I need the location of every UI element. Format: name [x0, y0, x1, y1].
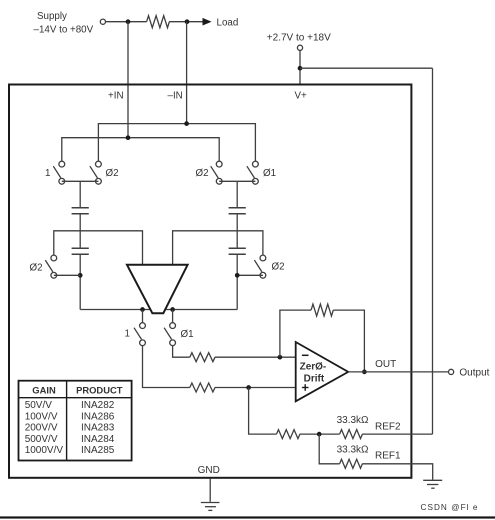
switch S5 phase 2 left [45, 255, 56, 278]
svg-text:+IN: +IN [108, 91, 124, 102]
wire upper input bus [98, 124, 255, 162]
ground REF1 [423, 480, 442, 488]
svg-text:Ø2: Ø2 [30, 262, 43, 273]
wire +IN vertical [127, 22, 129, 138]
node right column S6 junction [235, 273, 240, 278]
wire bus to S7 [142, 310, 144, 323]
node bottom bus left junction [140, 307, 145, 312]
svg-text:Ø2: Ø2 [196, 168, 209, 179]
wire S7 to R2 [143, 346, 190, 388]
node -IN on upper bus [184, 121, 189, 126]
resistor R5 33.3k REF2 [340, 430, 363, 439]
svg-text:V+: V+ [295, 91, 308, 102]
svg-text:Output: Output [459, 367, 489, 378]
wire supply terminal to shunt [106, 21, 147, 23]
svg-text:1: 1 [45, 168, 50, 179]
table row 1 [25, 400, 115, 411]
node ref junction [317, 432, 322, 437]
svg-text:–IN: –IN [168, 91, 183, 102]
table row 5 [25, 445, 115, 456]
wire lower input bus [62, 138, 219, 162]
node feedback minus junction [278, 355, 283, 360]
svg-text:CSDN @Fl e: CSDN @Fl e [421, 503, 479, 512]
svg-text:Ø2: Ø2 [106, 168, 119, 179]
wire R4 to ref node [300, 433, 340, 435]
ground GND [201, 503, 220, 511]
IC boundary box [9, 85, 411, 478]
node +IN top-rail junction [126, 19, 131, 24]
switch S3 phase 2 [211, 161, 222, 184]
svg-text:INA282: INA282 [81, 400, 115, 411]
node V+ junction [298, 66, 303, 71]
wire left feedback tap to A1 minus input [54, 231, 143, 265]
wire plus node down to R4 [249, 388, 277, 435]
switch S7 phase 1 [134, 323, 145, 346]
wire feedback up and over [280, 310, 311, 357]
svg-text:ZerØ-: ZerØ- [300, 362, 327, 373]
switch S6 phase 2 right [254, 255, 265, 278]
wire GND stub [209, 479, 211, 502]
table row 4 [25, 434, 115, 445]
svg-text:REF2: REF2 [375, 421, 401, 432]
svg-text:+2.7V to +18V: +2.7V to +18V [267, 32, 331, 43]
bottom rule [0, 516, 495, 518]
svg-text:200V/V: 200V/V [25, 423, 58, 434]
supply terminal [100, 19, 105, 24]
op-amp U1 zero-drift [296, 342, 349, 401]
capacitor C3 right [229, 208, 246, 214]
svg-text:Ø1: Ø1 [263, 168, 276, 179]
svg-text:Ø1: Ø1 [181, 329, 194, 340]
node output junction [362, 370, 367, 375]
svg-text:INA286: INA286 [81, 411, 115, 422]
svg-text:Supply: Supply [37, 11, 67, 22]
svg-text:33.3kΩ: 33.3kΩ [337, 415, 369, 426]
gain table [19, 381, 132, 461]
wire V+ junction to right rail [300, 67, 433, 69]
svg-text:Ø2: Ø2 [272, 261, 285, 272]
wire feedback to output node [333, 310, 364, 372]
svg-text:1000V/V: 1000V/V [25, 445, 64, 456]
U1 minus sign [302, 354, 309, 356]
svg-text:GND: GND [198, 465, 220, 476]
wire output [348, 371, 448, 373]
resistor R4 [277, 430, 300, 439]
wire C3 to C4 right column [236, 214, 238, 248]
svg-text:INA284: INA284 [81, 434, 115, 445]
op-amp A1 input trapezoid [127, 265, 188, 314]
wire -IN vertical [186, 22, 188, 124]
switch S8 phase 1 [164, 323, 175, 346]
resistor R_shunt [147, 16, 170, 28]
wire right feedback tap to A1 plus input [173, 231, 263, 265]
wire shunt to load arrow [169, 21, 203, 23]
svg-text:REF1: REF1 [375, 450, 401, 461]
node bottom bus right junction [170, 307, 175, 312]
wire REF2 to right rail [362, 433, 432, 435]
node -IN top-rail junction [185, 19, 190, 24]
wire S3-S4 bottoms with stub to C3 [219, 180, 255, 182]
svg-text:INA283: INA283 [81, 423, 115, 434]
wire S8 to R1 [173, 346, 190, 358]
switch S4 phase 1 [247, 161, 258, 184]
svg-text:Load: Load [217, 17, 239, 28]
resistor R1 minus path [190, 353, 215, 362]
wire R2 to U1 plus input [215, 387, 296, 389]
wire right column to bottom bus [236, 254, 238, 309]
wire V+ terminal down to box [299, 50, 301, 84]
svg-text:50V/V: 50V/V [25, 400, 53, 411]
switch S2 phase 2 [90, 161, 101, 184]
wire bottom bus [80, 309, 237, 311]
resistor R2 plus path [190, 383, 215, 392]
V+ terminal [297, 45, 302, 50]
svg-text:500V/V: 500V/V [25, 434, 58, 445]
U1 plus sign [302, 384, 309, 391]
wire bus to S8 [172, 310, 174, 323]
wire C1 to C2 left column [79, 214, 81, 248]
svg-text:OUT: OUT [375, 359, 396, 370]
node plus input junction [246, 385, 251, 390]
svg-text:1: 1 [125, 328, 130, 339]
capacitor C4 right [229, 248, 246, 254]
svg-text:100V/V: 100V/V [25, 411, 58, 422]
svg-text:GAIN: GAIN [32, 385, 56, 396]
svg-text:Drift: Drift [304, 373, 325, 384]
table row 3 [25, 423, 115, 434]
svg-text:–14V to +80V: –14V to +80V [34, 25, 94, 36]
wire right rail down to REF2 [432, 68, 434, 434]
resistor R6 33.3k REF1 [340, 459, 363, 468]
capacitor C1 left [72, 208, 89, 214]
wire ref node down to R6 [319, 434, 339, 464]
wire S6 bottom to right column [237, 274, 263, 276]
node +IN on lower bus [126, 135, 131, 140]
wire left column to bottom bus [79, 254, 81, 309]
wire S1-S2 bottoms with stub to C1 [62, 180, 99, 182]
node left column S5 junction [78, 273, 83, 278]
resistor R3 feedback [311, 304, 333, 316]
svg-text:33.3kΩ: 33.3kΩ [337, 444, 369, 455]
wire REF1 to ground [362, 464, 433, 480]
svg-text:INA285: INA285 [81, 445, 115, 456]
capacitor C2 left [72, 248, 89, 254]
table row 2 [25, 411, 115, 422]
svg-text:PRODUCT: PRODUCT [76, 385, 123, 396]
wire R1 to U1 minus input [215, 356, 296, 358]
output terminal [449, 369, 454, 374]
switch S1 phase 1 [53, 161, 64, 184]
load arrow [203, 18, 212, 26]
wire S5 bottom to left column [54, 274, 80, 276]
